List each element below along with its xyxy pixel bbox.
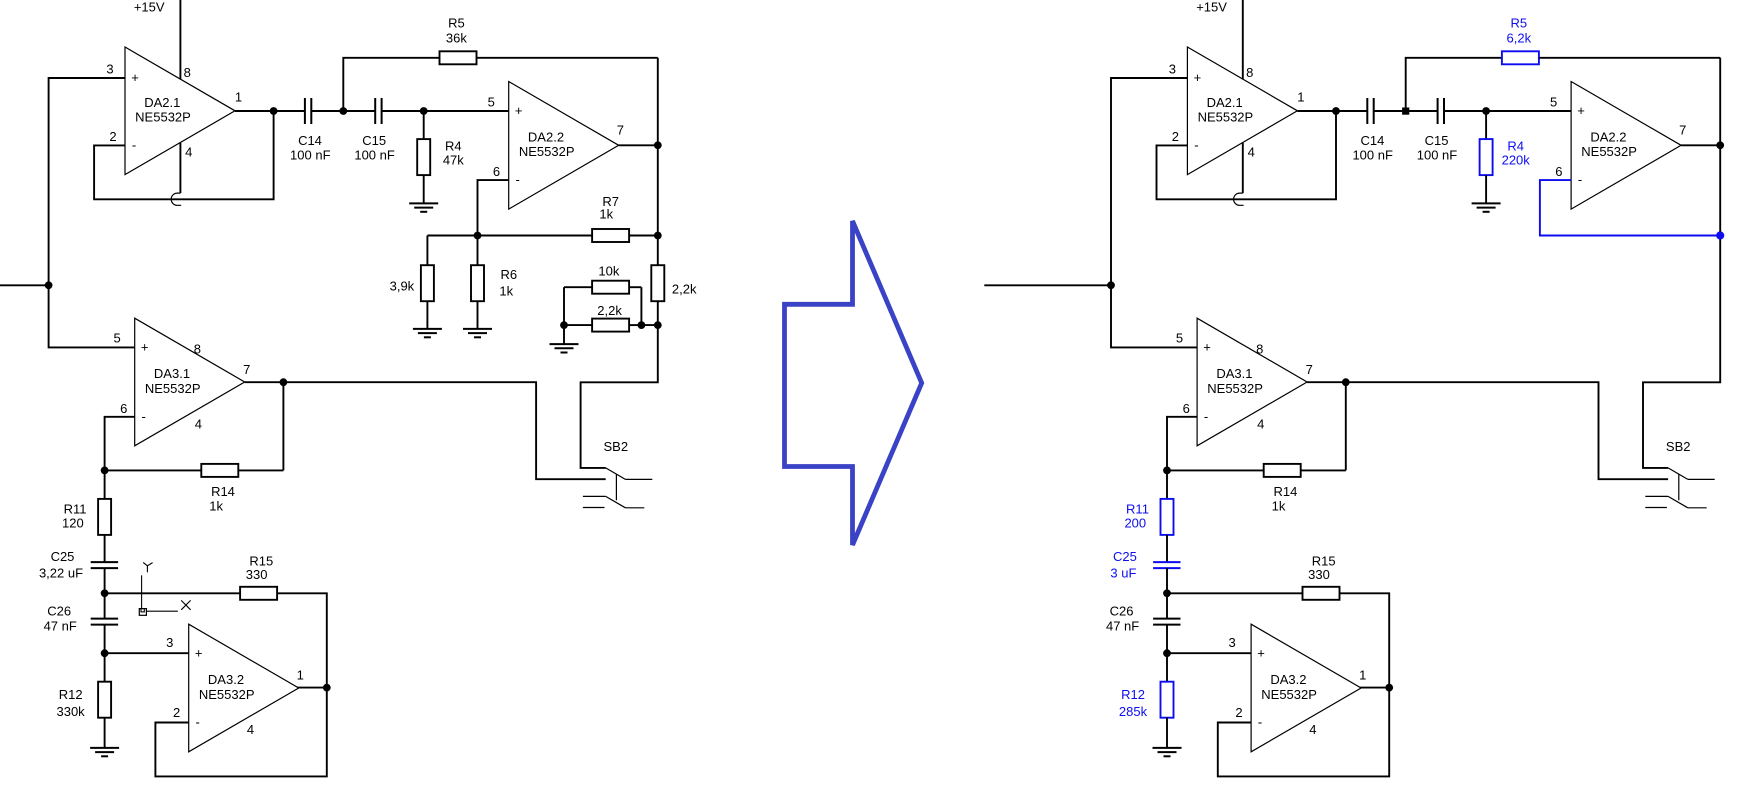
ground below R12 (1153, 747, 1182, 749)
wire node to R15 (1167, 592, 1302, 594)
svg-text:NE5532P: NE5532P (1207, 381, 1263, 396)
svg-text:7: 7 (1679, 123, 1686, 138)
resistor R11 (62, 470, 111, 562)
resistor 2,2k parallel (564, 303, 641, 331)
svg-text:+: + (515, 103, 523, 118)
ground below R12 (90, 747, 119, 749)
node DA3.2 output junction (323, 684, 331, 692)
svg-text:-: - (1204, 409, 1208, 424)
resistor R12 (1119, 653, 1174, 748)
wire DA2.1 pin 4 stub with crossover hook (1242, 143, 1244, 193)
svg-text:3,22 uF: 3,22 uF (39, 566, 83, 581)
svg-text:R4: R4 (445, 138, 462, 153)
svg-text:R5: R5 (448, 15, 465, 30)
svg-text:330: 330 (246, 567, 268, 582)
wire output rail down to SB2 (1643, 58, 1720, 468)
svg-text:C14: C14 (1360, 133, 1384, 148)
wire C14 to C15 (1374, 110, 1438, 112)
svg-text:NE5532P: NE5532P (1261, 687, 1317, 702)
svg-text:36k: 36k (446, 30, 467, 45)
svg-text:R11: R11 (64, 502, 87, 517)
capacitor C26 (44, 593, 119, 653)
wire input (984, 284, 1111, 286)
svg-text:NE5532P: NE5532P (1581, 144, 1637, 159)
resistor 10k (564, 263, 641, 293)
svg-text:3: 3 (1169, 61, 1176, 76)
svg-text:-: - (1258, 715, 1262, 730)
node DA2.2 pin 6 junction (474, 232, 482, 240)
wire 10k right leg (640, 287, 642, 325)
wire R14 to DA3.1 output (282, 382, 284, 470)
resistor R15 (240, 554, 277, 600)
wire DA2.2 pin 6 (478, 180, 509, 235)
wire C15 to DA2.2 pin 5 (1444, 110, 1571, 112)
svg-text:3: 3 (166, 635, 173, 650)
node input junction (1107, 281, 1115, 289)
svg-text:330k: 330k (56, 704, 85, 719)
wire DA2.1 feedback pin 2 to pin 1 (94, 111, 274, 199)
node DA3.2 pin 3 junction (101, 649, 109, 657)
wire parallel to rail (641, 324, 657, 326)
node C25-C26 junction (1163, 589, 1171, 597)
svg-text:3: 3 (106, 61, 113, 76)
svg-text:C26: C26 (47, 603, 71, 618)
node DA3.2 pin 3 junction (1163, 649, 1171, 657)
op-amp DA2.1 (1187, 47, 1297, 175)
node C14/C15 junction (339, 107, 347, 115)
svg-text:C14: C14 (298, 133, 322, 148)
ground below R4 (1472, 202, 1501, 204)
svg-text:2,2k: 2,2k (672, 281, 697, 296)
svg-text:R5: R5 (1510, 15, 1527, 30)
svg-text:6: 6 (1555, 164, 1562, 179)
op-amp DA3.2 (1251, 624, 1361, 752)
svg-text:-: - (142, 409, 146, 424)
wire +15V supply to DA2.1 pin 8 (1242, 0, 1244, 80)
node DA3.1 output junction (1342, 378, 1350, 386)
wire DA3.2 output (1360, 687, 1390, 689)
svg-text:NE5532P: NE5532P (1198, 110, 1254, 125)
svg-text:DA3.1: DA3.1 (154, 366, 190, 381)
svg-text:-: - (196, 715, 200, 730)
svg-text:1k: 1k (1272, 498, 1286, 513)
node R14 left junction (101, 467, 109, 475)
svg-text:5: 5 (1176, 330, 1183, 345)
svg-text:100 nF: 100 nF (1417, 148, 1458, 163)
node DA2.2 output junction (1716, 141, 1724, 149)
svg-text:+: + (131, 70, 139, 85)
capacitor C25 (39, 549, 118, 581)
svg-text:1: 1 (1297, 90, 1304, 105)
wire C25 to node (104, 568, 106, 593)
wire node to DA3.2 pin 3 (1167, 652, 1251, 654)
svg-text:4: 4 (1248, 145, 1255, 160)
wire junction to R5 (343, 58, 439, 111)
svg-text:+: + (1577, 103, 1585, 118)
wire R15 to DA3.2 output (278, 593, 327, 687)
svg-text:7: 7 (243, 362, 250, 377)
wire DA2.2 output (1681, 144, 1720, 146)
wire R14 to DA3.1 output (1345, 382, 1347, 470)
resistor 3,9k (390, 236, 434, 329)
svg-text:C15: C15 (1425, 133, 1449, 148)
node parallel left junction (560, 321, 568, 329)
svg-text:47 nF: 47 nF (1106, 619, 1139, 634)
svg-text:R12: R12 (1121, 687, 1145, 702)
svg-text:5: 5 (488, 94, 495, 109)
switch SB2 (1645, 439, 1714, 508)
svg-text:7: 7 (1306, 362, 1313, 377)
resistor R4 (1480, 111, 1531, 203)
wire DA2.1 pin 4 stub with crossover hook (179, 143, 181, 193)
svg-text:C25: C25 (1113, 549, 1137, 564)
op-amp DA2.1 (125, 47, 235, 175)
svg-text:3 uF: 3 uF (1110, 566, 1136, 581)
wire DA3.2 feedback pin 2 (155, 688, 326, 777)
node R4 tap junction (1482, 107, 1490, 115)
svg-text:-: - (132, 137, 136, 152)
svg-text:-: - (516, 172, 520, 187)
svg-text:4: 4 (1257, 416, 1264, 431)
svg-text:-: - (1194, 137, 1198, 152)
wire DA3.1 output to SB2 (1307, 382, 1668, 479)
wire DA3.1 pin 6 (105, 417, 135, 471)
wire divider ground leg (563, 325, 565, 344)
svg-text:47k: 47k (443, 153, 464, 168)
svg-text:C15: C15 (362, 133, 386, 148)
node blue feedback junction (1716, 231, 1724, 239)
svg-text:8: 8 (1256, 341, 1263, 356)
wire DA3.1 pin 6 (1167, 417, 1197, 471)
svg-text:10k: 10k (598, 263, 619, 278)
svg-text:C25: C25 (51, 549, 75, 564)
op-amp DA3.1 (135, 318, 245, 446)
svg-text:3,9k: 3,9k (390, 279, 415, 294)
svg-text:2: 2 (109, 129, 116, 144)
svg-text:120: 120 (62, 516, 84, 531)
svg-text:R14: R14 (1273, 484, 1297, 499)
svg-text:DA3.1: DA3.1 (1216, 366, 1252, 381)
resistor R7 (592, 194, 629, 242)
svg-text:4: 4 (247, 722, 254, 737)
resistor R5 (440, 15, 477, 64)
svg-text:1: 1 (297, 668, 304, 683)
resistor R6 (471, 236, 517, 329)
svg-text:3: 3 (1228, 635, 1235, 650)
node R7 rail junction (654, 232, 662, 240)
wire junction to R5 (1406, 58, 1502, 111)
svg-text:1k: 1k (499, 283, 513, 298)
node C14/C15 junction (square grip) (1402, 108, 1409, 115)
svg-text:R14: R14 (211, 484, 235, 499)
resistor R14 (105, 464, 284, 513)
svg-text:+: + (1203, 340, 1211, 355)
wire C14 to C15 (311, 110, 375, 112)
svg-text:+: + (141, 340, 149, 355)
resistor R11 (1124, 470, 1173, 562)
resistor R5 (1502, 15, 1539, 64)
capacitor C14 (1352, 98, 1393, 163)
wire +15V supply to DA2.1 pin 8 (179, 0, 181, 80)
svg-text:NE5532P: NE5532P (199, 687, 255, 702)
svg-text:8: 8 (184, 65, 191, 80)
wire input to DA2.1 pin 3 (1111, 78, 1187, 285)
wire input to DA2.1 pin 3 (49, 78, 125, 285)
svg-text:2: 2 (173, 705, 180, 720)
svg-text:285k: 285k (1119, 704, 1148, 719)
svg-text:2: 2 (1172, 129, 1179, 144)
svg-text:220k: 220k (1502, 153, 1531, 168)
node R4 tap junction (420, 107, 428, 115)
svg-text:100 nF: 100 nF (354, 148, 395, 163)
node parallel right junction (638, 321, 646, 329)
capacitor C15 (354, 98, 395, 163)
op-amp DA2.2 (509, 82, 619, 210)
svg-text:100 nF: 100 nF (1352, 148, 1393, 163)
wire DA2.1 output (235, 110, 305, 112)
wire node to DA3.2 pin 3 (105, 652, 189, 654)
svg-text:330: 330 (1308, 567, 1330, 582)
op-amp DA3.1 (1197, 318, 1307, 446)
wire C25 to node (1166, 568, 1168, 593)
svg-text:5: 5 (113, 330, 120, 345)
wire input to DA3.1 pin 5 (1111, 285, 1197, 347)
wire DA2.1 output (1297, 110, 1367, 112)
wire DA2.2 pin 6 feedback (blue mod) (1540, 180, 1719, 235)
svg-text:DA2.2: DA2.2 (1590, 129, 1626, 144)
svg-text:R4: R4 (1507, 138, 1524, 153)
svg-text:+: + (1194, 70, 1202, 85)
svg-text:2,2k: 2,2k (597, 303, 622, 318)
resistor R12 (56, 653, 111, 748)
ground below R6 (463, 328, 492, 330)
wire DA3.1 output to SB2 (245, 382, 606, 479)
svg-text:1: 1 (235, 90, 242, 105)
wire R7 node line (427, 235, 592, 237)
svg-text:NE5532P: NE5532P (145, 381, 201, 396)
node divider rail junction (654, 321, 662, 329)
svg-text:DA3.2: DA3.2 (208, 672, 244, 687)
svg-text:R6: R6 (500, 267, 517, 282)
node C25-C26 junction (101, 589, 109, 597)
capacitor C25 (1110, 549, 1180, 581)
svg-text:8: 8 (194, 341, 201, 356)
svg-text:5: 5 (1550, 94, 1557, 109)
resistor R4 (417, 111, 464, 203)
node input junction (45, 281, 53, 289)
svg-text:4: 4 (195, 416, 202, 431)
resistor R14 (1167, 464, 1346, 513)
wire 10k-2,2k left leg (563, 287, 565, 325)
svg-text:200: 200 (1124, 516, 1146, 531)
svg-text:1k: 1k (209, 498, 223, 513)
svg-text:DA2.1: DA2.1 (1207, 95, 1243, 110)
transformation arrow (785, 221, 922, 545)
wire DA2.2 output (619, 144, 658, 146)
capacitor C14 (290, 98, 331, 163)
node DA2.1 output junction (1332, 107, 1340, 115)
resistor 2,2k on rail (651, 265, 697, 301)
svg-text:+: + (1257, 645, 1265, 660)
svg-text:6: 6 (120, 401, 127, 416)
svg-text:NE5532P: NE5532P (135, 110, 191, 125)
svg-text:+15V: +15V (134, 0, 165, 15)
ground below divider (550, 343, 579, 345)
node DA2.1 output junction (270, 107, 278, 115)
wire DA2.1 feedback pin 2 to pin 1 (1157, 111, 1337, 199)
wire DA3.2 feedback pin 2 (1218, 688, 1389, 777)
svg-text:+15V: +15V (1196, 0, 1227, 15)
switch SB2 (583, 439, 652, 508)
svg-text:2: 2 (1235, 705, 1242, 720)
svg-text:6: 6 (1183, 401, 1190, 416)
wire R5 to output rail (477, 57, 658, 59)
ground below 3,9k (413, 328, 442, 330)
wire R5 to output rail (1539, 57, 1720, 59)
wire C15 to DA2.2 pin 5 (382, 110, 509, 112)
op-amp DA3.2 (189, 624, 299, 752)
svg-text:100 nF: 100 nF (290, 148, 331, 163)
wire R7 to rail (629, 235, 658, 237)
svg-text:SB2: SB2 (1666, 439, 1691, 454)
wire input to DA3.1 pin 5 (49, 285, 135, 347)
capacitor C15 (1417, 98, 1458, 163)
ground below R4 (409, 202, 438, 204)
svg-text:SB2: SB2 (604, 439, 629, 454)
wire R15 to DA3.2 output (1340, 593, 1389, 687)
svg-text:-: - (1578, 172, 1582, 187)
svg-text:DA3.2: DA3.2 (1270, 672, 1306, 687)
wire DA3.2 output (297, 687, 327, 689)
svg-text:7: 7 (617, 123, 624, 138)
node DA3.2 output junction (1385, 684, 1393, 692)
svg-text:4: 4 (185, 145, 192, 160)
svg-text:C26: C26 (1110, 603, 1134, 618)
node R14 left junction (1163, 467, 1171, 475)
svg-text:DA2.2: DA2.2 (528, 129, 564, 144)
capacitor C26 (1106, 593, 1181, 653)
wire node to R15 (105, 592, 240, 594)
svg-text:47 nF: 47 nF (44, 619, 77, 634)
svg-text:NE5532P: NE5532P (519, 144, 575, 159)
svg-text:6: 6 (493, 164, 500, 179)
svg-text:R12: R12 (59, 687, 83, 702)
svg-text:6,2k: 6,2k (1507, 30, 1532, 45)
svg-text:R11: R11 (1126, 502, 1149, 517)
svg-text:1k: 1k (599, 206, 613, 221)
resistor R15 (1303, 554, 1340, 600)
svg-text:DA2.1: DA2.1 (144, 95, 180, 110)
svg-text:1: 1 (1359, 668, 1366, 683)
wire input (0, 284, 49, 286)
node DA2.2 output junction (654, 141, 662, 149)
axis marker X/Y (139, 562, 190, 615)
svg-text:4: 4 (1309, 722, 1316, 737)
svg-text:8: 8 (1246, 65, 1253, 80)
node DA3.1 output junction (280, 378, 288, 386)
wire output rail down to SB2 (581, 58, 658, 468)
op-amp DA2.2 (1571, 82, 1681, 210)
svg-text:+: + (195, 645, 203, 660)
